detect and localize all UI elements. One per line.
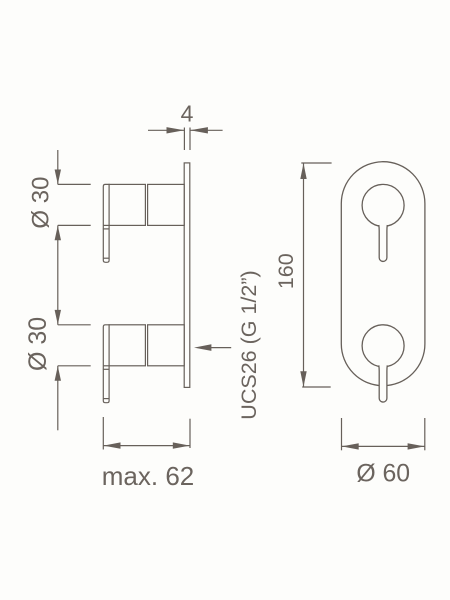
upper dimension Ø30: top shaft [57, 150, 59, 184]
dimension 160: bottom extension line [302, 386, 331, 388]
upper lever tip line [103, 257, 109, 259]
upper lever collar line [103, 228, 110, 230]
UCS26 leader arrow shaft [211, 347, 231, 349]
dimension 4: left arrowhead [167, 127, 185, 133]
upper handle front cap (side view) [109, 184, 145, 225]
lower lever tip line [103, 398, 109, 400]
lower handle circle (front view) [362, 325, 404, 367]
lower Ø30 top arrowhead (down) [55, 310, 61, 325]
lower handle stem (front view) [379, 364, 387, 401]
svg-text:160: 160 [274, 253, 298, 289]
upper dimension Ø30: extension line bottom [58, 224, 91, 226]
dimension 4: extension lines above plate [183, 128, 185, 151]
lower lever collar line [103, 368, 110, 370]
dimension Ø60: left extension line [341, 418, 343, 450]
lower lever cross line at body bottom [103, 365, 109, 367]
svg-text:max. 62: max. 62 [102, 461, 195, 491]
shared middle shaft between the two Ø30 dimensions [57, 225, 59, 324]
lower handle lever bar (side view) [103, 325, 109, 403]
lower handle front cap (side view) [109, 325, 145, 366]
Ø60 right arrowhead [408, 443, 425, 449]
dimension max.62: dimension line [103, 445, 190, 447]
upper handle stem (front view) [379, 224, 387, 261]
dimension 160: dimension line [303, 163, 305, 387]
dimension 4: left leader line [148, 129, 184, 131]
dimension max.62: right extension line [189, 419, 191, 448]
max.62 left arrowhead [104, 442, 121, 448]
UCS26 leader arrowhead [194, 344, 211, 351]
upper handle base (side view) [148, 184, 185, 225]
lower Ø30 bottom arrowhead (up) [55, 366, 61, 381]
dimension Ø60: right extension line [424, 418, 426, 450]
dimension 4: right leader line [190, 129, 222, 131]
dimension Ø60: dimension line [342, 445, 425, 447]
upper handle lever bar (side view) [103, 184, 109, 262]
dimension 160: top extension line [301, 162, 331, 164]
upper Ø30 bottom arrowhead (up) [55, 226, 61, 241]
lower dimension Ø30: bottom shaft [57, 366, 59, 431]
wall plate (side view) [184, 163, 190, 388]
160 top arrowhead (up) [300, 163, 306, 179]
lower handle base (side view) [148, 325, 185, 366]
svg-text:Ø 30: Ø 30 [24, 317, 52, 371]
dimension max.62: left extension line [102, 417, 104, 450]
upper lever cross line at body bottom [103, 224, 109, 226]
svg-text:Ø 30: Ø 30 [27, 177, 54, 229]
svg-text:4: 4 [181, 100, 194, 126]
lower dimension Ø30: extension line top [58, 324, 91, 326]
160 bottom arrowhead (down) [300, 371, 306, 387]
upper handle circle (front view) [362, 184, 404, 226]
front view plate (stadium outline) [341, 162, 425, 386]
lower dimension Ø30: extension line bottom [58, 365, 91, 367]
upper dimension Ø30: extension line top [58, 183, 91, 185]
Ø60 left arrowhead [342, 443, 359, 449]
svg-text:UCS26 (G 1/2”): UCS26 (G 1/2”) [237, 270, 261, 419]
svg-text:Ø 60: Ø 60 [356, 460, 410, 487]
dimension 4: right arrowhead [190, 127, 208, 133]
upper Ø30 top arrowhead (down) [55, 170, 61, 185]
max.62 right arrowhead [173, 442, 190, 448]
